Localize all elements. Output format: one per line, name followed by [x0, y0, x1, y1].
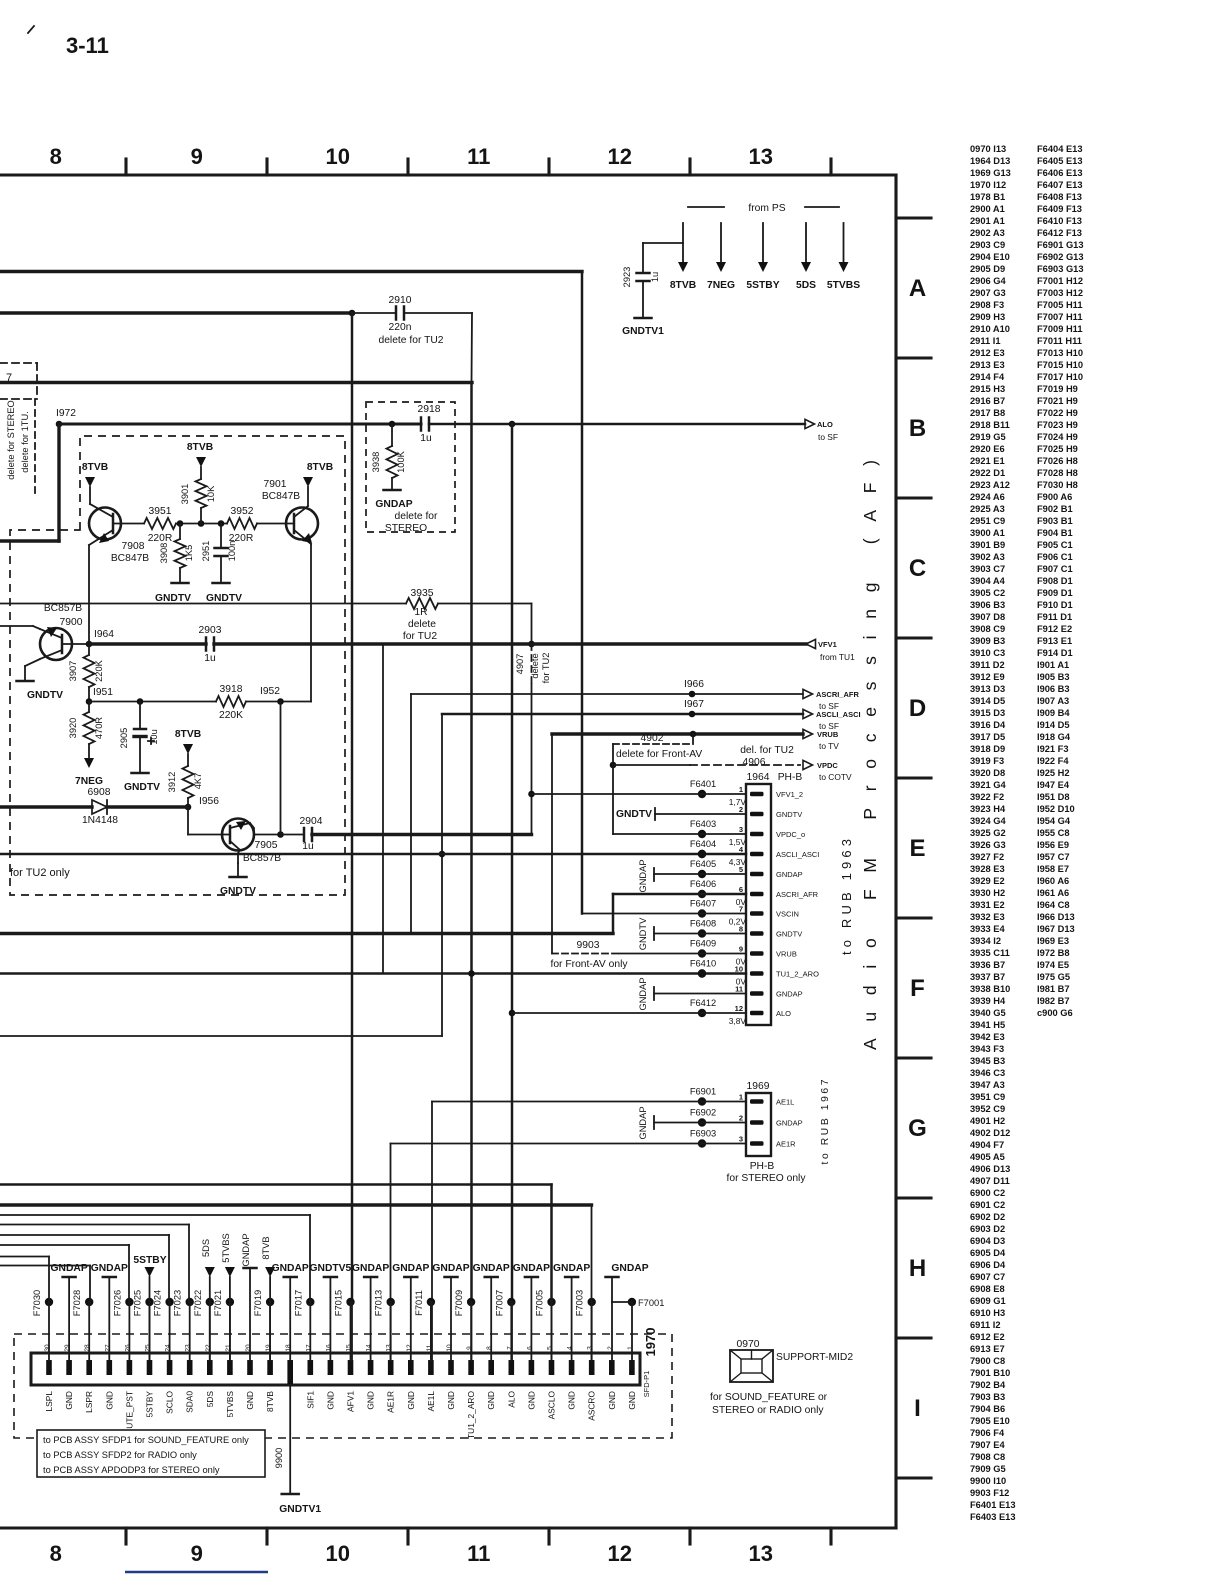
svg-text:F7025 H9: F7025 H9 [1037, 444, 1078, 454]
svg-text:to PCB ASSY APDODP3 for STEREO: to PCB ASSY APDODP3 for STEREO only [43, 1465, 220, 1475]
capacitor 2918 1u [420, 418, 423, 431]
svg-text:6900 C2: 6900 C2 [970, 1188, 1005, 1198]
svg-text:AFV1: AFV1 [346, 1391, 356, 1412]
svg-text:3951: 3951 [149, 506, 172, 517]
svg-text:1R: 1R [414, 607, 427, 618]
svg-text:F7005 H11: F7005 H11 [1037, 300, 1083, 310]
resistor 3907 220K [84, 655, 95, 687]
link F7013 [387, 1298, 395, 1306]
svg-text:6906 D4: 6906 D4 [970, 1260, 1006, 1270]
wire 9903 for Front-AV (dashed) [552, 953, 612, 955]
svg-text:for STEREO only: for STEREO only [727, 1173, 807, 1184]
svg-text:9: 9 [739, 945, 743, 954]
connector 1964 pin 7 mark [750, 911, 764, 916]
capacitor 2951 100n [215, 547, 228, 550]
supply arrowhead 8TVB (7901) [303, 477, 313, 487]
transistor 7908 emitter diagonal [89, 530, 113, 545]
wire pin12 ALO [512, 1012, 746, 1014]
svg-text:2924 A6: 2924 A6 [970, 492, 1005, 502]
svg-text:25: 25 [145, 1344, 152, 1352]
svg-text:8: 8 [486, 1346, 493, 1350]
wire pin8 GNDTV [654, 933, 746, 935]
svg-text:STEREO or RADIO only: STEREO or RADIO only [712, 1405, 824, 1416]
arrow ASCRI_AFR to SF [803, 689, 813, 698]
wire pin2 GNDTV [655, 813, 746, 815]
supply arrowhead 5STBY pin 25 [145, 1267, 155, 1277]
svg-text:3902 A3: 3902 A3 [970, 552, 1005, 562]
svg-text:F909 D1: F909 D1 [1037, 588, 1073, 598]
svg-text:21: 21 [225, 1344, 232, 1352]
bottom ruler tick 6 [829, 1528, 832, 1544]
wire 2910 left lead [352, 312, 396, 314]
svg-text:2922 D1: 2922 D1 [970, 468, 1005, 478]
svg-text:8: 8 [50, 1541, 62, 1566]
svg-text:F7021: F7021 [213, 1290, 223, 1316]
svg-text:1u: 1u [650, 272, 660, 282]
svg-text:8TVB: 8TVB [265, 1391, 275, 1412]
supply arrow stem 8TVB [682, 223, 684, 262]
transistor 7901 BC847B [286, 508, 318, 540]
wire pin 27 ground [108, 1277, 110, 1360]
svg-text:F7007 H11: F7007 H11 [1037, 312, 1083, 322]
svg-text:3931 E2: 3931 E2 [970, 900, 1005, 910]
connector 1964 pin 4 mark [750, 852, 764, 857]
svg-text:5TVBS: 5TVBS [827, 280, 860, 291]
wire I964 to 2903 [89, 642, 206, 645]
connector 1970 pin 23 mark [187, 1360, 193, 1375]
svg-text:3924 G4: 3924 G4 [970, 816, 1006, 826]
svg-text:7901: 7901 [264, 479, 287, 490]
svg-text:2923: 2923 [622, 267, 632, 288]
wire pin 28 vertical [89, 1266, 91, 1303]
svg-text:F7013 H10: F7013 H10 [1037, 348, 1083, 358]
wire pin 25 into connector [149, 1302, 151, 1360]
svg-text:3920: 3920 [68, 718, 78, 739]
wire pin9 VRUB [612, 953, 746, 955]
svg-text:GNDTV: GNDTV [155, 593, 191, 604]
svg-text:TU1_2_ARO: TU1_2_ARO [776, 970, 819, 979]
svg-text:to PCB ASSY SFDP2 for RADIO on: to PCB ASSY SFDP2 for RADIO only [43, 1450, 197, 1460]
connector 1964 pin 2 mark [750, 812, 764, 817]
ground bar GNDAP pin 10 [445, 1276, 458, 1279]
wire ASCLI_ASCI to SF [442, 713, 803, 716]
svg-text:2: 2 [739, 805, 743, 814]
supply arrowhead 5DS [801, 262, 811, 272]
svg-text:ASCLO: ASCLO [547, 1391, 557, 1420]
bottom ruler tick 5 [688, 1528, 691, 1544]
svg-text:GND: GND [406, 1391, 416, 1410]
svg-text:for SOUND_FEATURE or: for SOUND_FEATURE or [710, 1392, 828, 1403]
wire 1969 pin3 AE1R [391, 1143, 747, 1145]
node 3938 top [389, 421, 396, 428]
supply arrowhead 8TVB (7908) [85, 477, 95, 487]
svg-text:GNDAP: GNDAP [473, 1263, 510, 1274]
svg-text:SFD-P1: SFD-P1 [642, 1371, 651, 1398]
svg-text:I974 E5: I974 E5 [1037, 960, 1069, 970]
resistor 3952 220R [227, 518, 257, 529]
wire 7905 collector to 2904 [254, 834, 281, 836]
svg-text:3901 B9: 3901 B9 [970, 540, 1005, 550]
connector 1969 pin 2 mark [750, 1120, 764, 1125]
svg-text:3,8V: 3,8V [729, 1016, 747, 1026]
svg-text:F6408 F13: F6408 F13 [1037, 192, 1082, 202]
svg-text:1978 B1: 1978 B1 [970, 192, 1005, 202]
connector 1970 pin 4 mark [569, 1360, 575, 1375]
wire TU1_2_ARO vertical bus [470, 383, 473, 1303]
svg-text:6910 H3: 6910 H3 [970, 1308, 1005, 1318]
dashed stub below connector 7 [34, 399, 36, 494]
svg-text:I967 D13: I967 D13 [1037, 924, 1075, 934]
svg-text:7908: 7908 [122, 541, 145, 552]
svg-text:10: 10 [735, 965, 743, 974]
ground GNDAP (3938) [384, 489, 401, 492]
link F6903 [698, 1139, 706, 1147]
svg-text:I905 B3: I905 B3 [1037, 672, 1070, 682]
svg-text:7905 E10: 7905 E10 [970, 1416, 1010, 1426]
right row tick 4 [896, 636, 931, 639]
node I964 [86, 641, 93, 648]
transistor 7900 emitter arrow [47, 627, 57, 637]
svg-text:F6903 G13: F6903 G13 [1037, 264, 1084, 274]
svg-text:1N4148: 1N4148 [82, 815, 118, 826]
svg-text:GNDTV: GNDTV [776, 930, 802, 939]
svg-text:F905 C1: F905 C1 [1037, 540, 1073, 550]
link F7023 [186, 1298, 194, 1306]
svg-text:1964 D13: 1964 D13 [970, 156, 1010, 166]
svg-text:5TVBS: 5TVBS [221, 1233, 231, 1262]
svg-text:GNDAP: GNDAP [241, 1233, 251, 1266]
svg-text:I958 E7: I958 E7 [1037, 864, 1069, 874]
svg-text:SDA0: SDA0 [185, 1391, 195, 1413]
svg-text:220K: 220K [94, 659, 104, 682]
node ALO / pin12 junction [509, 1010, 516, 1017]
ground bar GNDAP pin 12 [404, 1276, 417, 1279]
wire pin 16 ground [329, 1277, 331, 1360]
svg-text:3914 D5: 3914 D5 [970, 696, 1005, 706]
link F7019 [266, 1298, 274, 1306]
svg-text:2903: 2903 [199, 625, 222, 636]
svg-text:2915 H3: 2915 H3 [970, 384, 1005, 394]
top ruler tick 1 [124, 159, 127, 175]
wire pin 23 vertical [188, 1225, 190, 1303]
svg-text:F6902: F6902 [690, 1108, 716, 1118]
svg-text:F6405 E13: F6405 E13 [1037, 156, 1083, 166]
svg-text:2909 H3: 2909 H3 [970, 312, 1005, 322]
wire 3907 bottom lead [88, 687, 90, 702]
wire 2923 branch [643, 242, 683, 244]
node I956 [185, 804, 192, 811]
wire 7900 collector to ground [24, 666, 26, 681]
transistor 7905 emitter diagonal [230, 841, 240, 850]
svg-text:10: 10 [446, 1344, 453, 1352]
transistor 7900 emitter diagonal [40, 629, 62, 638]
wire 3912 bottom lead [187, 798, 189, 807]
svg-text:8TVB: 8TVB [82, 462, 108, 473]
svg-text:F7011 H11: F7011 H11 [1037, 336, 1082, 346]
svg-text:1970: 1970 [643, 1328, 658, 1357]
svg-text:GND: GND [325, 1391, 335, 1410]
wire pin5 GNDAP [654, 873, 746, 875]
svg-text:4907: 4907 [515, 654, 525, 675]
svg-text:1u: 1u [302, 841, 314, 852]
svg-text:GND: GND [64, 1391, 74, 1410]
svg-text:GNDAP: GNDAP [352, 1263, 389, 1274]
ground GNDTV (7900) [17, 680, 34, 683]
svg-text:3920 D8: 3920 D8 [970, 768, 1005, 778]
svg-text:GNDTV: GNDTV [27, 690, 63, 701]
svg-text:16: 16 [325, 1344, 332, 1352]
svg-text:3907: 3907 [68, 661, 78, 682]
svg-text:delete for Front-AV: delete for Front-AV [616, 749, 702, 760]
wire 6908 to I956 [107, 805, 188, 808]
wire VPDC_o vertical [612, 765, 614, 834]
supply arrowhead 8TVB [678, 262, 688, 272]
wire pin 26 vertical [128, 1245, 130, 1302]
svg-text:8TVB: 8TVB [187, 442, 213, 453]
svg-text:delete for TU2: delete for TU2 [378, 335, 443, 346]
wire 2905 top lead [139, 702, 141, 730]
svg-text:3933 E4: 3933 E4 [970, 924, 1005, 934]
svg-text:8TVB: 8TVB [307, 462, 333, 473]
svg-text:GNDAP: GNDAP [638, 977, 648, 1010]
wire pin 28 exit left [0, 1265, 90, 1267]
svg-text:GNDTV5: GNDTV5 [310, 1263, 352, 1274]
scan mark top left [28, 26, 34, 33]
svg-text:F7007: F7007 [494, 1290, 504, 1316]
svg-text:22: 22 [205, 1344, 212, 1352]
svg-text:F907 C1: F907 C1 [1037, 564, 1073, 574]
svg-text:E: E [909, 835, 925, 862]
wire pin11 GNDAP [654, 993, 746, 995]
transistor 7905 collector arrow [236, 821, 246, 830]
node I952/2904 junction [277, 831, 284, 838]
transistor 7908 BC847B [89, 508, 121, 540]
svg-text:3921 G4: 3921 G4 [970, 780, 1006, 790]
svg-text:14: 14 [366, 1344, 373, 1352]
svg-text:2913 E3: 2913 E3 [970, 360, 1005, 370]
svg-text:4902 D12: 4902 D12 [970, 1128, 1010, 1138]
bottom ruler tick 1 [124, 1528, 127, 1544]
connector 1970 pin 6 mark [529, 1360, 535, 1375]
ground bar GNDAP pins 1-2 [606, 1276, 619, 1279]
svg-text:I951 D8: I951 D8 [1037, 792, 1070, 802]
wire pin 7 into connector [511, 1302, 513, 1360]
svg-text:1u: 1u [420, 433, 432, 444]
svg-text:GNDTV1: GNDTV1 [622, 326, 664, 337]
supply arrowhead 8TVB (3912) [183, 744, 193, 754]
svg-text:0970 I13: 0970 I13 [970, 144, 1006, 154]
connector 1969 PH-B body [746, 1093, 771, 1156]
ground bar GNDAP pin 6 [525, 1276, 538, 1279]
svg-text:I982 B7: I982 B7 [1037, 996, 1070, 1006]
bottom ruler tick 4 [547, 1528, 550, 1544]
capacitor 2923 1u [637, 272, 650, 275]
node I966 [689, 691, 696, 698]
svg-text:PH-B: PH-B [750, 1161, 775, 1172]
svg-text:to PCB ASSY SFDP1 for SOUND_FE: to PCB ASSY SFDP1 for SOUND_FEATURE only [43, 1435, 249, 1445]
svg-text:I906 B3: I906 B3 [1037, 684, 1070, 694]
svg-text:7: 7 [6, 372, 12, 384]
ground GNDTV1 (2923) [635, 317, 652, 320]
link F7026 [125, 1298, 133, 1306]
wire 7905 base lead [188, 834, 230, 836]
wire VSCIN vertical bus [581, 272, 584, 914]
svg-text:F6408: F6408 [690, 919, 716, 929]
svg-text:2917 B8: 2917 B8 [970, 408, 1005, 418]
svg-text:18: 18 [285, 1344, 292, 1352]
svg-text:GNDAP: GNDAP [553, 1263, 590, 1274]
connector 1964 PH-B body [746, 784, 771, 1025]
svg-text:I961 A6: I961 A6 [1037, 888, 1069, 898]
connector 1970 pin 18 mark [287, 1360, 293, 1384]
svg-text:F914 D1: F914 D1 [1037, 648, 1073, 658]
svg-text:VPDC: VPDC [817, 761, 838, 770]
svg-text:I972 B8: I972 B8 [1037, 948, 1070, 958]
svg-text:delete for: delete for [395, 511, 439, 522]
svg-text:F6410: F6410 [690, 959, 716, 969]
link F7011 [427, 1298, 435, 1306]
svg-text:I964 C8: I964 C8 [1037, 900, 1070, 910]
svg-text:17: 17 [305, 1344, 312, 1352]
svg-text:I956 E9: I956 E9 [1037, 840, 1069, 850]
wire 3935 down to VFV1 wire [531, 604, 533, 645]
svg-text:F7021 H9: F7021 H9 [1037, 396, 1078, 406]
connector 1970 pin 16 mark [328, 1360, 334, 1375]
wire 7900 emitter lead [33, 626, 40, 629]
node 3908 top [177, 520, 184, 527]
svg-text:GNDTV: GNDTV [638, 917, 648, 950]
svg-text:13: 13 [748, 1541, 772, 1566]
link F7003 [588, 1298, 596, 1306]
wire pin 13 into connector [390, 1302, 392, 1360]
svg-text:AE1R: AE1R [386, 1391, 396, 1413]
svg-text:I957 C7: I957 C7 [1037, 852, 1070, 862]
wire pin 28 into connector [88, 1302, 90, 1360]
svg-text:3: 3 [739, 825, 743, 834]
wire pin 21 5TVBS [229, 1277, 231, 1360]
svg-text:F908 D1: F908 D1 [1037, 576, 1073, 586]
svg-text:F7023: F7023 [173, 1290, 183, 1316]
ground bar GNDAP pin 20 [244, 1267, 257, 1270]
connector 1964 pin 8 mark [750, 931, 764, 936]
node I972 [56, 421, 63, 428]
wire pin 1 ground [631, 1302, 633, 1360]
svg-text:24: 24 [165, 1344, 172, 1352]
svg-text:GNDTV: GNDTV [776, 810, 802, 819]
resistor 3901 10K [196, 479, 207, 508]
svg-text:2902 A3: 2902 A3 [970, 228, 1005, 238]
svg-text:GND: GND [446, 1391, 456, 1410]
svg-text:1,7V: 1,7V [729, 797, 747, 807]
supply arrowhead 8TVB pin 19 [265, 1267, 275, 1277]
svg-text:13: 13 [748, 144, 772, 169]
svg-text:F7015: F7015 [334, 1290, 344, 1316]
svg-text:ASCRO: ASCRO [587, 1391, 597, 1421]
svg-text:2914 F4: 2914 F4 [970, 372, 1005, 382]
node 2905 top [137, 698, 144, 705]
link F7001 [628, 1298, 636, 1306]
link F6404 [698, 850, 706, 858]
svg-text:F906 C1: F906 C1 [1037, 552, 1073, 562]
svg-text:F6406 E13: F6406 E13 [1037, 168, 1083, 178]
svg-text:3915 D3: 3915 D3 [970, 708, 1005, 718]
wire 3920 bottom lead [88, 744, 90, 758]
svg-text:I914 D5: I914 D5 [1037, 720, 1070, 730]
svg-text:2925 A3: 2925 A3 [970, 504, 1005, 514]
svg-text:I952 D10: I952 D10 [1037, 804, 1075, 814]
svg-text:F913 E1: F913 E1 [1037, 636, 1072, 646]
svg-text:6: 6 [739, 885, 743, 894]
svg-text:8TVB: 8TVB [261, 1236, 271, 1259]
node TU1_2_ARO bus junction [468, 970, 475, 977]
svg-text:VFV1_2: VFV1_2 [776, 790, 803, 799]
svg-text:3904 A4: 3904 A4 [970, 576, 1006, 586]
svg-text:F7022: F7022 [193, 1290, 203, 1316]
wire 2923 bottom lead [642, 281, 644, 318]
svg-text:3908 C9: 3908 C9 [970, 624, 1005, 634]
node VPDC junction [610, 762, 617, 769]
svg-text:MUTE_PST: MUTE_PST [124, 1391, 134, 1436]
wire 2923 top lead [642, 243, 644, 273]
svg-text:c900 G6: c900 G6 [1037, 1008, 1073, 1018]
wire pin3 VPDC_o [613, 833, 746, 835]
wire 3907 top lead [88, 644, 90, 655]
transistor 7905 BC857B [222, 819, 254, 851]
supply arrowhead 7NEG [716, 262, 726, 272]
svg-text:3923 H4: 3923 H4 [970, 804, 1006, 814]
node I952 [277, 698, 284, 705]
svg-text:9900: 9900 [274, 1448, 284, 1469]
link F6401 [698, 790, 706, 798]
svg-text:F6901: F6901 [690, 1087, 716, 1097]
svg-text:9900 I10: 9900 I10 [970, 1476, 1006, 1486]
svg-text:I954 G4: I954 G4 [1037, 816, 1071, 826]
wire 7908 emitter to I964 [88, 545, 90, 644]
link F6408 [698, 929, 706, 937]
wire pin 7 into connector [510, 1302, 512, 1360]
svg-text:6903 D2: 6903 D2 [970, 1224, 1005, 1234]
connector 1964 pin 5 mark [750, 872, 764, 877]
wire 7905 emitter to ground [237, 863, 239, 877]
svg-text:GND: GND [627, 1391, 637, 1410]
svg-text:AE1L: AE1L [776, 1098, 794, 1107]
bottom ruler tick 2 [265, 1528, 268, 1544]
wire 2904 left lead [281, 834, 305, 836]
svg-text:3942 E3: 3942 E3 [970, 1032, 1005, 1042]
link F6901 [698, 1097, 706, 1105]
link F7025 [145, 1298, 153, 1306]
svg-text:GNDAP: GNDAP [513, 1263, 550, 1274]
svg-text:5STBY: 5STBY [145, 1391, 155, 1418]
blue scan artifact line at bottom [125, 1571, 268, 1574]
svg-text:6904 D3: 6904 D3 [970, 1236, 1005, 1246]
node I951 [86, 698, 93, 705]
svg-text:3913 D3: 3913 D3 [970, 684, 1005, 694]
svg-text:for TU2 only: for TU2 only [10, 867, 70, 879]
svg-text:12: 12 [735, 1004, 743, 1013]
svg-text:3932 E3: 3932 E3 [970, 912, 1005, 922]
wire pin 12 ground [410, 1277, 412, 1360]
svg-text:3917 D5: 3917 D5 [970, 732, 1005, 742]
wire 3901 bottom lead [200, 508, 202, 524]
link F7009 [467, 1298, 475, 1306]
svg-text:5TVBS: 5TVBS [225, 1391, 235, 1418]
connector 1970 outer dashed box [14, 1334, 672, 1438]
bottom ruler / border line [0, 1526, 896, 1529]
wire 3938 top lead [391, 424, 393, 446]
wire ALO from I972 [59, 422, 421, 425]
svg-text:3911 D2: 3911 D2 [970, 660, 1005, 670]
